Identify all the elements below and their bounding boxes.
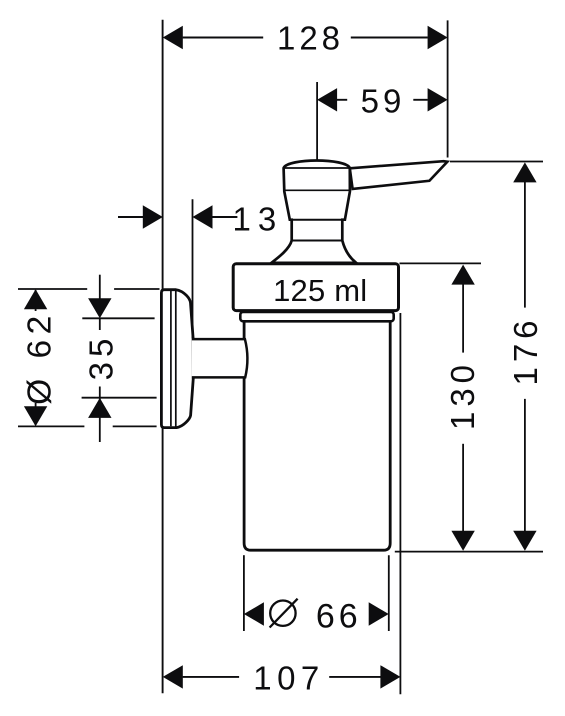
- svg-text:128: 128: [277, 20, 344, 57]
- svg-text:176: 176: [507, 315, 544, 385]
- svg-text:125 ml: 125 ml: [273, 273, 367, 308]
- svg-text:59: 59: [361, 83, 406, 120]
- svg-text:130: 130: [444, 360, 481, 430]
- svg-text:107: 107: [253, 660, 325, 697]
- svg-text:66: 66: [316, 597, 362, 635]
- svg-text:13: 13: [233, 201, 284, 238]
- svg-text:35: 35: [83, 334, 120, 381]
- svg-text:Ø 62: Ø 62: [21, 310, 58, 405]
